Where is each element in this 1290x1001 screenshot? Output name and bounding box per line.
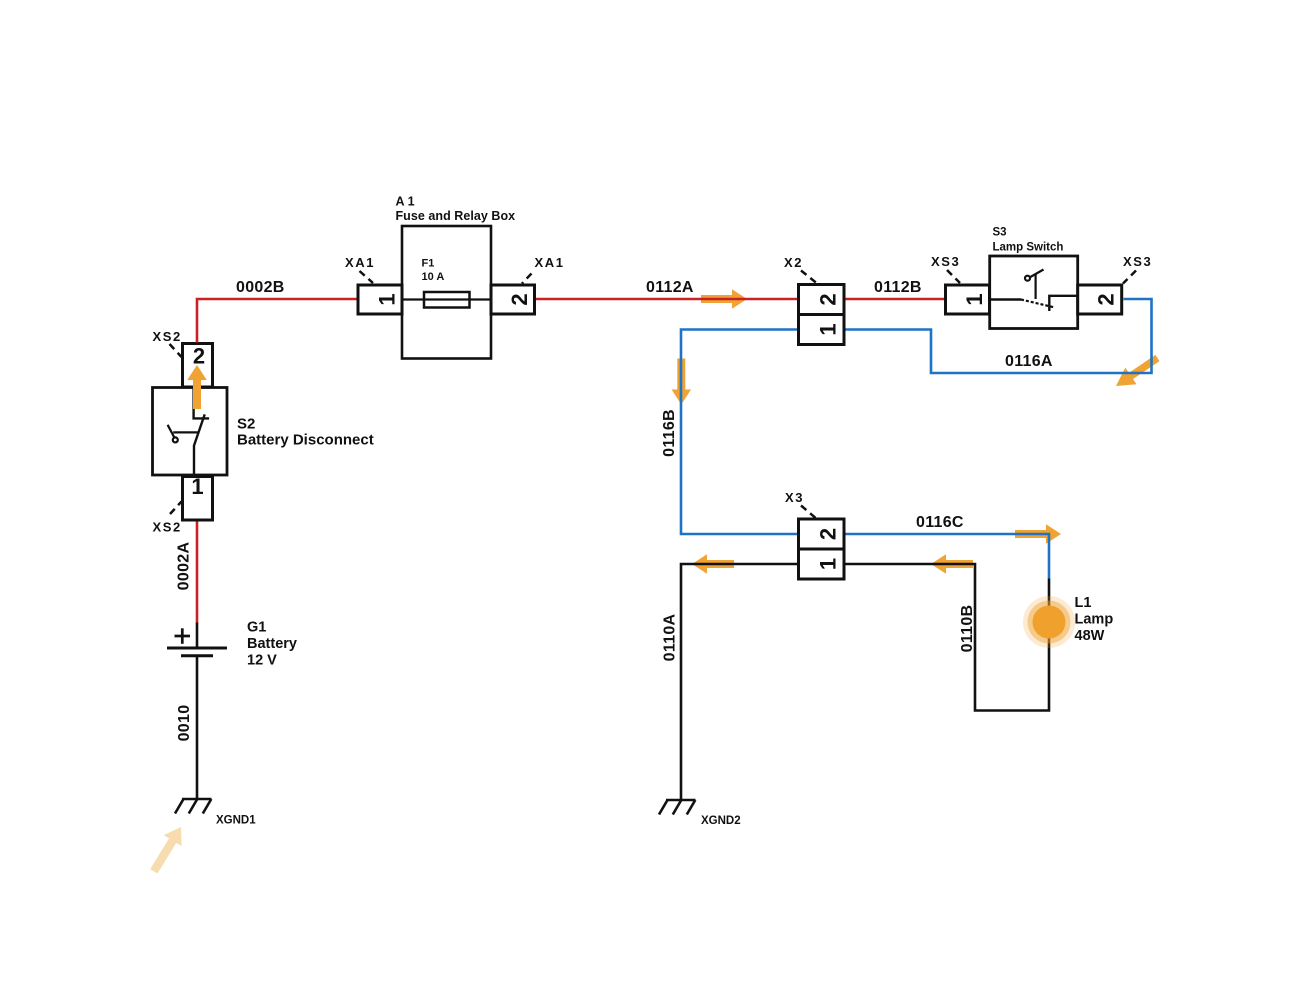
svg-text:2: 2 [193, 344, 205, 369]
wire through A1 (black) [402, 298, 491, 300]
flow arrow right (wire 0112A) [701, 289, 747, 309]
wire 0110B (black, lamp L1 to X3 pin 1) [846, 564, 1050, 711]
leader XA1 left [360, 271, 374, 283]
fuse F1 [424, 292, 470, 308]
svg-text:0116B: 0116B [661, 409, 678, 457]
leader X3 [801, 506, 816, 519]
svg-text:0110A: 0110A [662, 613, 679, 661]
svg-text:2: 2 [816, 528, 841, 540]
svg-text:Lamp: Lamp [1075, 612, 1114, 628]
flow arrow down (wire 0116B) [672, 359, 692, 405]
battery G1 plus sign [175, 628, 191, 644]
connector X2 box [799, 285, 845, 345]
svg-text:XGND2: XGND2 [701, 815, 741, 827]
switch S3 right contact L (with end-stop bar) [1049, 296, 1077, 311]
wire 0116C (blue, X3 pin 2 to lamp L1) [846, 534, 1050, 579]
connector X2 divider [799, 313, 845, 316]
battery G1 negative plate [181, 654, 213, 657]
svg-text:2: 2 [507, 293, 532, 305]
lamp L1 outer glow [1023, 596, 1075, 648]
svg-text:XS2: XS2 [153, 329, 182, 344]
leader XA1 right [522, 274, 532, 284]
label G1 Battery 12 V [247, 620, 297, 669]
leader XS3 left [947, 270, 960, 283]
flow arrow up (through S2) [187, 365, 207, 409]
leader XS3 right [1123, 271, 1136, 284]
switch S2 box [153, 388, 228, 476]
svg-text:0116A: 0116A [1005, 353, 1053, 370]
wire 0116A (blue, XS3 pin 2 back to X2 pin 1) [846, 299, 1152, 373]
wire 0010 (black, battery - to ground XGND1) [196, 656, 199, 800]
flow arrow left (wire 0110B) [931, 554, 973, 574]
svg-text:1: 1 [375, 293, 400, 305]
connector XS2 pin 1 box [183, 477, 213, 521]
svg-text:G1: G1 [247, 620, 266, 636]
svg-text:0110B: 0110B [959, 605, 976, 653]
svg-text:Battery: Battery [247, 636, 297, 652]
wire 0110A (black, X3 pin 1 to ground XGND2) [681, 564, 797, 800]
switch S3 left contact [990, 298, 1021, 300]
label L1 Lamp 48W [1075, 595, 1114, 644]
svg-text:Lamp Switch: Lamp Switch [993, 242, 1064, 254]
svg-text:2: 2 [816, 293, 841, 305]
svg-text:L1: L1 [1075, 595, 1092, 611]
svg-text:2: 2 [1094, 293, 1119, 305]
flow arrow diagonal (wire 0116A corner) [1110, 350, 1163, 395]
leader XS2 bottom [170, 502, 182, 515]
lamp L1 body [1033, 606, 1066, 639]
connector XS3 pin 2 box [1078, 285, 1122, 314]
svg-text:0112B: 0112B [874, 279, 922, 296]
svg-text:0002B: 0002B [236, 279, 285, 296]
svg-text:X3: X3 [785, 490, 804, 505]
svg-text:XA1: XA1 [535, 255, 565, 270]
svg-text:X2: X2 [784, 255, 803, 270]
svg-text:0002A: 0002A [176, 542, 193, 591]
leader XS2 top [170, 344, 182, 357]
svg-text:Battery Disconnect: Battery Disconnect [237, 432, 374, 449]
svg-text:0116C: 0116C [916, 514, 964, 531]
connector XS2 pin 2 box [183, 344, 213, 388]
svg-text:XGND1: XGND1 [216, 815, 256, 827]
wire 0112A (red, fuse box to connector X2) [536, 298, 797, 301]
flow arrow left (wire 0110A) [692, 554, 734, 574]
lamp L1 middle glow [1028, 601, 1071, 644]
connector XA1 pin 2 box [491, 285, 535, 314]
svg-text:A 1: A 1 [396, 195, 415, 209]
wire 0112B (red, X2 to lamp switch XS3 pin 1) [846, 298, 945, 301]
connector X3 box [799, 519, 845, 579]
svg-text:F1: F1 [422, 258, 435, 270]
flow arrow pale (into ground XGND1) [145, 822, 190, 877]
label F1 10 A [422, 258, 445, 284]
svg-text:Fuse and Relay Box: Fuse and Relay Box [396, 209, 516, 223]
switch S3 blade (dashed) [1021, 300, 1054, 308]
ground XGND2 [659, 800, 696, 815]
wire 0002B (red, battery disconnect to fuse box) [197, 299, 357, 343]
label A1 Fuse and Relay Box [396, 195, 516, 224]
switch S2 contact L (pin 2 side with end-stop bar) [194, 388, 210, 419]
svg-text:1: 1 [816, 558, 841, 570]
fuse and relay box A1 [402, 226, 491, 359]
switch S3 box [990, 256, 1078, 329]
switch S3 actuator [1025, 270, 1044, 300]
svg-text:48W: 48W [1075, 628, 1105, 644]
svg-text:S3: S3 [993, 227, 1007, 239]
svg-text:0010: 0010 [176, 705, 193, 742]
label S2 Battery Disconnect [237, 416, 374, 449]
svg-text:S2: S2 [237, 416, 255, 433]
switch S2 actuator [168, 425, 198, 443]
svg-text:0112A: 0112A [646, 279, 694, 296]
connector XA1 pin 1 box [358, 285, 402, 314]
svg-text:1: 1 [816, 323, 841, 335]
connector X3 divider [799, 548, 845, 551]
svg-text:10 A: 10 A [422, 271, 445, 283]
flow arrow right (wire 0116C) [1015, 524, 1061, 544]
svg-text:1: 1 [962, 293, 987, 305]
connector XS3 pin 1 box [946, 285, 990, 314]
wire battery top stub (black) [196, 623, 199, 649]
svg-text:XS2: XS2 [153, 520, 182, 535]
label S3 Lamp Switch [993, 227, 1064, 254]
svg-text:XA1: XA1 [345, 255, 375, 270]
wire 0116B (blue, X2 pin 1 down to X3 pin 2) [681, 330, 797, 535]
svg-text:1: 1 [191, 474, 203, 499]
wire 0002A (red, battery + to disconnect pin 1) [196, 522, 199, 623]
ground XGND1 [175, 799, 212, 814]
leader X2 [801, 271, 818, 284]
svg-text:XS3: XS3 [1123, 254, 1152, 269]
switch S2 blade [194, 414, 205, 475]
svg-text:12 V: 12 V [247, 653, 277, 669]
svg-text:XS3: XS3 [931, 254, 960, 269]
battery G1 positive plate [167, 647, 227, 650]
